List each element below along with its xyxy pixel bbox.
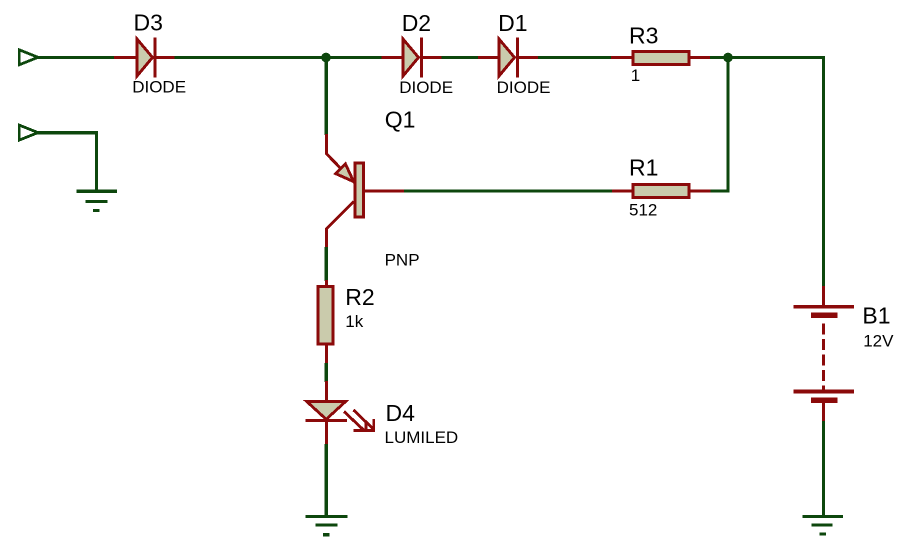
svg-text:12V: 12V bbox=[863, 331, 894, 350]
resistor R2 bbox=[318, 280, 333, 364]
svg-text:1: 1 bbox=[631, 66, 640, 85]
svg-text:PNP: PNP bbox=[385, 251, 420, 270]
terminal T2 bbox=[19, 125, 38, 140]
wire D2 to D1 bbox=[442, 56, 479, 59]
svg-text:D2: D2 bbox=[402, 10, 431, 36]
node A junction bbox=[321, 53, 331, 63]
svg-text:Q1: Q1 bbox=[385, 106, 416, 132]
svg-text:R2: R2 bbox=[345, 284, 374, 310]
svg-text:DIODE: DIODE bbox=[399, 78, 453, 97]
svg-text:512: 512 bbox=[629, 201, 657, 220]
svg-text:D4: D4 bbox=[386, 400, 416, 426]
wire battery to ground bbox=[822, 421, 825, 517]
wire Q1 base to R1 bbox=[404, 189, 613, 192]
ground (battery) bbox=[803, 516, 844, 534]
wire R1 to node B bbox=[711, 57, 729, 191]
wire R3 to node B bbox=[710, 56, 728, 59]
wire R2 to D4 bbox=[325, 363, 328, 382]
wire D3 to D2 bbox=[175, 56, 382, 59]
svg-text:D3: D3 bbox=[134, 10, 163, 36]
svg-text:D1: D1 bbox=[498, 10, 527, 36]
LED D4 bbox=[305, 381, 375, 445]
terminal T1 bbox=[19, 50, 38, 65]
wire T2 to ground bbox=[36, 133, 97, 190]
diode D2 bbox=[382, 38, 442, 78]
battery B1 bbox=[794, 286, 855, 422]
resistor R3 bbox=[611, 51, 710, 64]
node B junction bbox=[723, 53, 733, 63]
svg-text:LUMILED: LUMILED bbox=[385, 428, 459, 447]
ground (D4) bbox=[305, 517, 347, 535]
svg-text:B1: B1 bbox=[862, 302, 890, 328]
svg-text:R1: R1 bbox=[629, 155, 658, 181]
svg-text:R3: R3 bbox=[629, 22, 658, 48]
wire node B to battery bbox=[728, 57, 824, 288]
resistor R1 bbox=[612, 184, 711, 197]
diode D3 bbox=[114, 38, 175, 78]
svg-text:DIODE: DIODE bbox=[132, 78, 186, 97]
wire node A to Q1 emitter bbox=[325, 57, 328, 135]
wire Q1 collector to R2 bbox=[325, 247, 328, 281]
wire D1 to R3 bbox=[538, 56, 612, 59]
svg-text:DIODE: DIODE bbox=[497, 78, 551, 97]
transistor Q1 bbox=[326, 134, 404, 248]
wire T1 to D3 bbox=[36, 56, 116, 59]
ground (T2) bbox=[77, 191, 118, 210]
diode D1 bbox=[478, 38, 538, 78]
svg-text:1k: 1k bbox=[345, 312, 363, 331]
wire D4 to ground bbox=[325, 444, 328, 517]
